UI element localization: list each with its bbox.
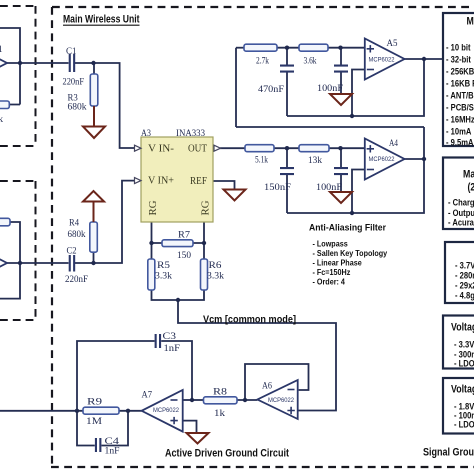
svg-text:100nF: 100nF <box>317 84 343 94</box>
svg-text:- 16MHz: - 16MHz <box>446 113 474 124</box>
svg-text:R9: R9 <box>87 398 102 408</box>
svg-text:RG: RG <box>148 201 159 216</box>
svg-text:2.7k: 2.7k <box>256 57 269 67</box>
svg-text:Voltage R: Voltage R <box>451 322 474 334</box>
svg-text:R4: R4 <box>69 219 79 229</box>
svg-text:R5: R5 <box>157 261 170 271</box>
svg-text:A3: A3 <box>141 129 151 139</box>
svg-text:- 10mA: - 10mA <box>446 126 471 137</box>
svg-text:150nF: 150nF <box>264 183 291 193</box>
svg-text:470nF: 470nF <box>258 85 284 95</box>
svg-text:Vcm [common mode]: Vcm [common mode] <box>203 315 296 326</box>
svg-text:MCP6022: MCP6022 <box>369 58 396 64</box>
svg-text:150: 150 <box>177 251 191 261</box>
svg-text:C3: C3 <box>163 332 177 342</box>
svg-text:13k: 13k <box>308 156 322 166</box>
svg-text:- 4.8g: - 4.8g <box>455 290 474 301</box>
svg-text:- Order: 4: - Order: 4 <box>313 277 346 286</box>
svg-text:- ANT/BLE: - ANT/BLE <box>446 89 474 100</box>
svg-text:- 32-bit: - 32-bit <box>446 53 471 64</box>
svg-text:A1: A1 <box>0 45 3 55</box>
svg-text:220nF: 220nF <box>65 275 88 285</box>
svg-text:MCP6022: MCP6022 <box>268 398 295 404</box>
svg-text:- Acuracy: - Acuracy <box>448 216 474 227</box>
svg-text:Voltage R: Voltage R <box>451 384 474 396</box>
svg-text:- Linear Phase: - Linear Phase <box>313 258 362 267</box>
svg-text:- Sallen Key Topology: - Sallen Key Topology <box>313 249 388 258</box>
svg-text:680k: 680k <box>0 115 3 125</box>
svg-text:680k: 680k <box>68 230 86 240</box>
svg-text:3.3k: 3.3k <box>207 272 224 282</box>
svg-text:1nF: 1nF <box>105 447 120 457</box>
svg-text:R8: R8 <box>213 388 227 398</box>
svg-text:A6: A6 <box>262 382 272 392</box>
svg-text:A7: A7 <box>142 391 153 401</box>
svg-text:C1: C1 <box>66 47 77 57</box>
svg-text:3.6k: 3.6k <box>304 57 317 67</box>
svg-text:5.1k: 5.1k <box>255 156 268 166</box>
svg-text:3.3k: 3.3k <box>155 272 172 282</box>
svg-text:- 9.5mA Rx: - 9.5mA Rx <box>446 137 474 148</box>
svg-text:1M: 1M <box>86 417 103 427</box>
svg-text:INA333: INA333 <box>176 129 205 139</box>
svg-text:680k: 680k <box>68 103 87 113</box>
svg-text:C2: C2 <box>67 247 77 257</box>
svg-text:- LDO: - LDO <box>454 357 474 368</box>
svg-text:A4: A4 <box>389 139 398 149</box>
svg-text:- PCB/SMD: - PCB/SMD <box>446 101 474 112</box>
svg-text:- 10 bit: - 10 bit <box>446 41 471 52</box>
svg-text:- Lowpass: - Lowpass <box>313 239 348 248</box>
svg-text:- LDO: - LDO <box>454 418 474 429</box>
svg-text:R6: R6 <box>209 261 222 271</box>
svg-text:- 256KB Flash: - 256KB Flash <box>446 65 474 76</box>
svg-text:Signal Ground: Signal Ground <box>423 447 474 459</box>
svg-text:Active Driven Ground Circuit: Active Driven Ground Circuit <box>165 448 289 460</box>
svg-text:Main Wireless Unit: Main Wireless Unit <box>63 14 140 26</box>
svg-text:Main: Main <box>463 169 474 181</box>
svg-text:MCP6022: MCP6022 <box>369 157 396 163</box>
svg-text:MCP6022: MCP6022 <box>153 408 180 414</box>
svg-text:(2: (2 <box>468 182 474 194</box>
svg-text:- 3.7V: - 3.7V <box>455 259 474 270</box>
svg-text:220nF: 220nF <box>63 78 85 88</box>
svg-text:A5: A5 <box>387 39 398 49</box>
svg-text:1k: 1k <box>214 409 225 419</box>
svg-text:V IN-: V IN- <box>148 144 174 155</box>
svg-text:REF: REF <box>190 176 207 187</box>
svg-text:RG: RG <box>201 201 212 216</box>
svg-text:R7: R7 <box>178 231 190 241</box>
svg-text:C4: C4 <box>105 437 120 447</box>
svg-text:1nF: 1nF <box>164 344 181 354</box>
svg-text:Anti-Aliasing Filter: Anti-Aliasing Filter <box>309 223 386 234</box>
svg-text:100nF: 100nF <box>316 183 342 193</box>
svg-text:- Fc=150Hz: - Fc=150Hz <box>313 268 351 277</box>
svg-text:- 16KB RAM: - 16KB RAM <box>446 77 474 88</box>
svg-text:V IN+: V IN+ <box>148 176 174 187</box>
svg-text:MC: MC <box>467 16 474 28</box>
svg-text:OUT: OUT <box>188 144 207 155</box>
